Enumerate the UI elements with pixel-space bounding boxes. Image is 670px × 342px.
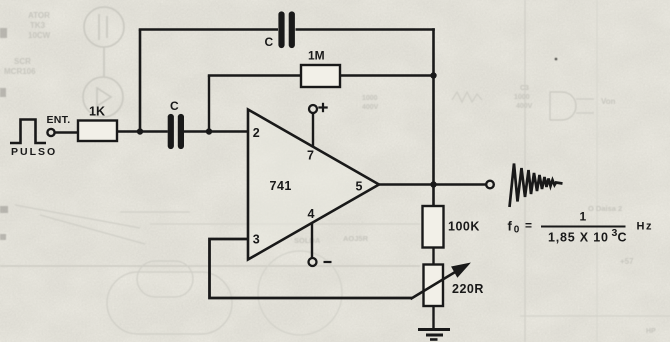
wire op-amp pin 3 (210, 239, 413, 298)
output terminal (486, 181, 494, 189)
svg-text:AOJ5R: AOJ5R (343, 234, 369, 243)
svg-text:HP: HP (646, 328, 656, 335)
wiper arrow of 220R (411, 265, 468, 300)
wire 1M right segment (340, 74, 435, 76)
svg-text:10CW: 10CW (28, 31, 51, 40)
wire node B up to 1M feedback (208, 76, 210, 132)
svg-text:4: 4 (308, 207, 315, 221)
output waveform damped oscillation (510, 164, 563, 208)
pin 4 supply lead (311, 223, 313, 258)
wire capacitor C1 to op-amp pin 2 (184, 130, 248, 132)
capacitor C1 series input (171, 117, 181, 146)
ground wire stub (432, 306, 434, 330)
svg-text:3: 3 (253, 233, 260, 247)
svg-text:f: f (508, 219, 513, 234)
capacitor C2 top feedback (282, 15, 292, 46)
node A junction dot (137, 128, 143, 134)
minus sign (324, 261, 332, 263)
top feedback wire left segment (139, 28, 278, 31)
svg-text:MCR106: MCR106 (4, 67, 36, 76)
V- supply terminal (309, 258, 317, 266)
svg-text:2: 2 (253, 126, 260, 140)
svg-text:7: 7 (307, 149, 314, 163)
svg-text:1000: 1000 (514, 94, 530, 101)
resistor R1 1K (78, 121, 117, 142)
svg-text:C3: C3 (520, 85, 529, 92)
output wire (379, 183, 486, 185)
output node junction dot (430, 181, 436, 187)
input terminal ENT (47, 129, 54, 136)
svg-text:220R: 220R (452, 282, 484, 296)
right vertical wire output net (432, 28, 435, 207)
svg-text:C: C (618, 231, 627, 245)
svg-text:ATOR: ATOR (28, 11, 50, 20)
wire resistor 1K to node A (117, 130, 168, 132)
wire 1M left segment (208, 74, 301, 76)
input pulse waveform symbol (10, 120, 46, 144)
svg-text:5: 5 (356, 180, 363, 194)
top feedback wire right segment (296, 28, 435, 31)
plus sign (318, 103, 327, 112)
ground (418, 330, 450, 340)
pin 7 supply lead (312, 113, 314, 148)
svg-text:O Daisa 2: O Daisa 2 (588, 204, 622, 213)
node B junction dot (206, 128, 212, 134)
svg-text:SOLDA: SOLDA (294, 236, 321, 245)
svg-text:0: 0 (514, 225, 520, 236)
svg-text:TK3: TK3 (30, 21, 46, 30)
op-amp U1 741 (248, 110, 379, 260)
svg-text:ENT.: ENT. (47, 114, 71, 126)
svg-text:+57: +57 (620, 257, 634, 266)
svg-text:400V: 400V (362, 104, 379, 111)
svg-text:1000: 1000 (362, 95, 378, 102)
formula f0 = 1/(1,85 x 10^3 C) Hz (508, 210, 653, 245)
svg-text:1,85 X 10: 1,85 X 10 (548, 231, 609, 245)
svg-text:C: C (265, 35, 274, 49)
wire node A up to top feedback (139, 30, 142, 132)
svg-text:PULSO: PULSO (11, 146, 57, 158)
node C junction dot feedback to output (430, 72, 436, 78)
svg-text:1K: 1K (89, 105, 105, 119)
potentiometer R4 220R (424, 265, 444, 307)
svg-text:=: = (525, 219, 532, 233)
svg-text:400V: 400V (516, 103, 533, 110)
wire input terminal to resistor 1K (55, 131, 78, 133)
svg-text:Von: Von (601, 97, 616, 106)
V+ supply terminal (309, 105, 317, 113)
svg-text:SCR: SCR (14, 57, 31, 66)
svg-text:741: 741 (270, 179, 292, 193)
resistor R2 1M (301, 65, 340, 87)
wire 100K to 220R (432, 248, 434, 265)
svg-text:C: C (170, 99, 179, 113)
svg-text:100K: 100K (448, 220, 480, 234)
svg-text:1: 1 (580, 210, 587, 224)
resistor R3 100K (423, 206, 444, 248)
svg-text:1M: 1M (308, 49, 325, 63)
svg-text:Hz: Hz (637, 221, 653, 233)
